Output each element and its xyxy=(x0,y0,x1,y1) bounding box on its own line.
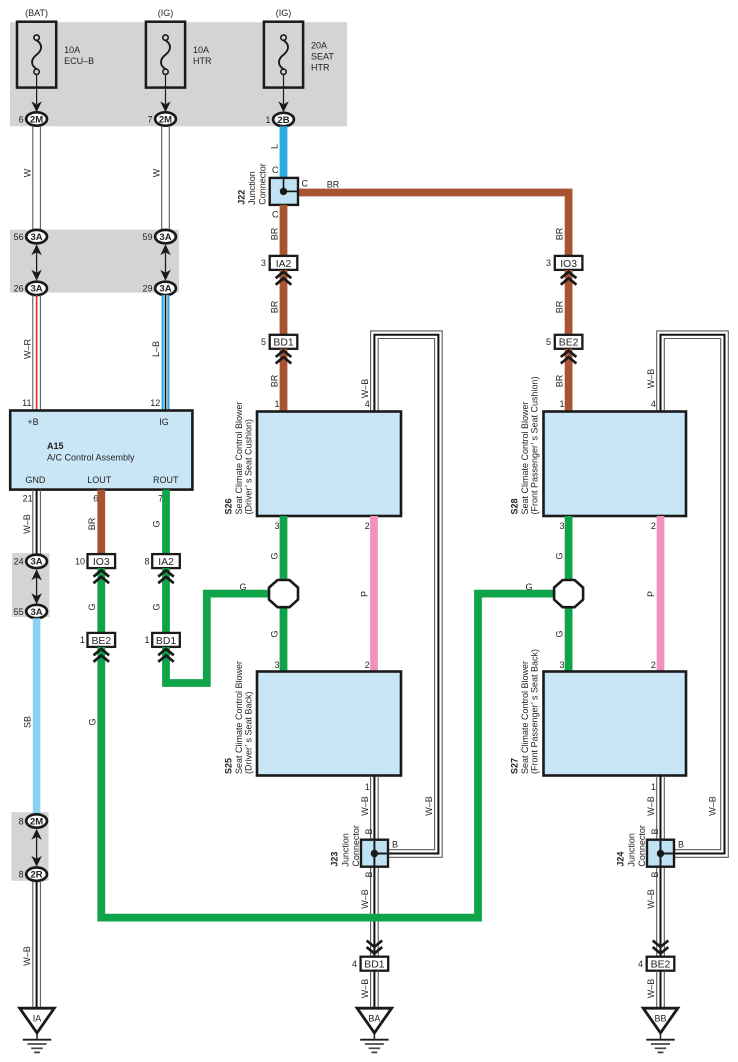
wire W-B 2R to ground IA xyxy=(22,881,40,1008)
svg-text:(BAT): (BAT) xyxy=(25,8,48,18)
svg-text:(Front Passenger’ s Seat Cushi: (Front Passenger’ s Seat Cushion) xyxy=(530,376,540,514)
label B below J24 xyxy=(650,871,660,877)
svg-text:BR: BR xyxy=(87,517,97,530)
wire BR BE2 to S28 pin 1 xyxy=(555,349,577,412)
wire BR IA2 to BD1 xyxy=(270,270,292,335)
wire P S28 pin2 to S27 pin2 xyxy=(646,516,661,672)
connector BE2 pin 1 xyxy=(80,633,115,647)
svg-text:3: 3 xyxy=(274,521,279,531)
svg-text:2: 2 xyxy=(651,521,656,531)
svg-text:C: C xyxy=(272,210,279,220)
blower S27 Seat Climate Control Blower (Front Passenger's Seat Back) xyxy=(510,649,687,776)
connector BD1 pin 1 xyxy=(144,633,179,647)
svg-text:IG: IG xyxy=(159,417,169,427)
wire BR BD1 to S26 pin 1 xyxy=(270,349,292,412)
svg-text:12: 12 xyxy=(150,398,160,408)
chevrons into BE2-4 xyxy=(653,941,669,954)
svg-text:26: 26 xyxy=(14,284,24,294)
connector 2B pin 1 xyxy=(265,113,293,126)
svg-text:56: 56 xyxy=(14,232,24,242)
svg-text:Junction: Junction xyxy=(247,171,257,205)
svg-text:B: B xyxy=(678,840,684,850)
svg-text:21: 21 xyxy=(23,494,33,504)
pin 12 label xyxy=(150,398,160,408)
splice node left octagon xyxy=(269,580,298,607)
blower S28 Seat Climate Control Blower (Front Passenger's Seat Cushion) xyxy=(510,376,687,516)
pin 1 label S27 xyxy=(651,782,656,792)
svg-text:BA: BA xyxy=(368,1013,380,1023)
svg-text:20A: 20A xyxy=(311,40,327,50)
gray band connectors 2M/2R xyxy=(11,812,48,881)
gray band connectors 3A lower left xyxy=(12,553,50,617)
connector 3A pin 56 xyxy=(14,230,47,243)
svg-text:J22: J22 xyxy=(237,190,247,205)
svg-text:Seat Climate Control Blower: Seat Climate Control Blower xyxy=(520,661,530,774)
wire SB 55 to 2M xyxy=(22,618,36,814)
svg-text:W–B: W–B xyxy=(646,889,656,909)
svg-text:BR: BR xyxy=(327,180,340,190)
label B right of J24 xyxy=(678,840,684,850)
wire W-B A15 GND to 3A-24 xyxy=(22,490,40,555)
svg-text:BE2: BE2 xyxy=(559,338,579,349)
wire L-B 3A to A15 IG xyxy=(151,295,166,410)
svg-text:Seat Climate Control Blower: Seat Climate Control Blower xyxy=(520,401,530,514)
junction connector J22 xyxy=(237,163,298,205)
svg-text:G: G xyxy=(525,582,532,592)
svg-text:W–B: W–B xyxy=(646,979,656,999)
svg-text:3: 3 xyxy=(546,258,551,268)
svg-text:BR: BR xyxy=(270,300,280,313)
svg-text:5: 5 xyxy=(546,337,551,347)
svg-text:BD1: BD1 xyxy=(156,636,176,647)
connector 3A pin 29 xyxy=(142,282,175,295)
pin 1 label S28 xyxy=(559,399,564,409)
svg-text:G: G xyxy=(87,718,97,725)
svg-text:BR: BR xyxy=(270,374,280,387)
svg-text:8: 8 xyxy=(19,816,24,826)
pin 3 label S27 xyxy=(559,660,564,670)
connector BE2 pin 4 xyxy=(638,957,674,971)
svg-text:S26: S26 xyxy=(224,498,234,514)
svg-text:2M: 2M xyxy=(159,114,172,125)
wire G IA2 to BD1 xyxy=(152,568,174,633)
connector BE2 pin 5 xyxy=(546,335,582,349)
svg-text:4: 4 xyxy=(638,959,643,969)
svg-text:S25: S25 xyxy=(224,758,234,774)
svg-text:J24: J24 xyxy=(616,852,626,867)
wire P S26 pin2 to S25 pin2 xyxy=(360,516,375,672)
label B above J24 xyxy=(650,828,660,834)
svg-text:P: P xyxy=(646,591,656,597)
gray band fuse row xyxy=(10,22,347,126)
svg-text:3: 3 xyxy=(559,521,564,531)
svg-text:1: 1 xyxy=(144,635,149,645)
svg-text:(IG): (IG) xyxy=(158,8,174,18)
svg-text:W–B: W–B xyxy=(646,796,656,816)
svg-text:ECU–B: ECU–B xyxy=(64,56,94,66)
svg-text:IO3: IO3 xyxy=(560,259,577,270)
svg-text:W–B: W–B xyxy=(360,796,370,816)
connector BD1 pin 4 xyxy=(352,957,388,971)
chevrons into BD1-4 xyxy=(367,941,383,954)
svg-text:3A: 3A xyxy=(159,232,171,243)
splice node right octagon xyxy=(554,580,583,607)
svg-text:SEAT: SEAT xyxy=(311,51,334,61)
label C below J22 xyxy=(272,210,279,220)
wire W-B S27 pin1 to BE2-4 xyxy=(646,776,664,957)
svg-text:BR: BR xyxy=(270,227,280,240)
svg-text:5: 5 xyxy=(261,337,266,347)
wire BR A15 LOUT to IO3 xyxy=(87,490,101,555)
wire W-B BE2-4 to ground BB xyxy=(646,971,664,1009)
pin 7 label xyxy=(158,494,163,504)
svg-text:IA2: IA2 xyxy=(276,259,292,270)
svg-text:(Driver’ s Seat Back): (Driver’ s Seat Back) xyxy=(244,691,254,774)
svg-text:29: 29 xyxy=(142,284,152,294)
svg-text:(Driver’ s Seat Cushion): (Driver’ s Seat Cushion) xyxy=(244,419,254,515)
wire W-B S28 pin4 loop to J24 xyxy=(646,331,728,857)
connector IO3 pin 10 xyxy=(75,554,115,568)
svg-text:W: W xyxy=(23,168,33,177)
svg-text:W–B: W–B xyxy=(22,946,32,966)
svg-text:59: 59 xyxy=(142,232,152,242)
svg-text:IO3: IO3 xyxy=(93,557,110,568)
gray band connectors 3A upper xyxy=(10,230,179,293)
svg-text:2M: 2M xyxy=(30,816,43,827)
svg-text:8: 8 xyxy=(19,870,24,880)
svg-text:IA: IA xyxy=(33,1013,42,1023)
svg-text:55: 55 xyxy=(14,607,24,617)
svg-text:BE2: BE2 xyxy=(651,960,671,971)
wire G splice to S25 pin3 xyxy=(270,607,284,672)
label B above J23 xyxy=(364,828,374,834)
svg-text:1: 1 xyxy=(365,782,370,792)
svg-text:G: G xyxy=(152,603,162,610)
svg-text:LOUT: LOUT xyxy=(87,475,112,485)
fuse SEAT HTR 20A xyxy=(264,8,334,112)
wire G splice to S27 pin3 xyxy=(555,607,569,672)
svg-text:L–B: L–B xyxy=(151,341,161,357)
link arrows 56-26 xyxy=(31,244,41,280)
svg-text:2M: 2M xyxy=(30,114,43,125)
svg-text:3A: 3A xyxy=(31,607,43,618)
svg-text:BE2: BE2 xyxy=(91,636,111,647)
svg-text:B: B xyxy=(392,840,398,850)
svg-text:+B: +B xyxy=(27,417,38,427)
svg-text:Connector: Connector xyxy=(351,825,361,867)
svg-text:G: G xyxy=(270,630,280,637)
pin 2 label S28 xyxy=(651,521,656,531)
connector IO3 pin 3 xyxy=(546,256,582,270)
fuse ECU-B 10A xyxy=(17,8,94,112)
svg-text:W–B: W–B xyxy=(360,889,370,909)
junction connector J24 xyxy=(616,825,675,867)
svg-text:P: P xyxy=(360,591,370,597)
wire W-B S25 pin1 to BD1-4 xyxy=(360,776,378,957)
svg-text:10A: 10A xyxy=(64,45,80,55)
svg-text:G: G xyxy=(270,552,280,559)
svg-text:Seat Climate Control Blower: Seat Climate Control Blower xyxy=(234,661,244,774)
connector IA2 pin 3 xyxy=(261,256,297,270)
svg-text:3A: 3A xyxy=(31,284,43,295)
svg-text:G: G xyxy=(555,630,565,637)
svg-text:C: C xyxy=(272,165,279,175)
svg-text:G: G xyxy=(239,582,246,592)
pin 3 label S28 xyxy=(559,521,564,531)
svg-text:BD1: BD1 xyxy=(364,960,384,971)
svg-text:W–B: W–B xyxy=(360,379,370,399)
svg-text:C: C xyxy=(302,179,309,189)
svg-text:2: 2 xyxy=(365,521,370,531)
pin 6 label xyxy=(93,494,98,504)
label B below J23 xyxy=(364,871,374,877)
pin 4 label S26 xyxy=(365,399,370,409)
svg-text:3: 3 xyxy=(261,258,266,268)
ground IA xyxy=(20,1008,55,1052)
label C above J22 xyxy=(272,165,279,175)
wire G IO3 to BE2 xyxy=(87,568,109,633)
svg-text:3A: 3A xyxy=(31,557,43,568)
svg-text:HTR: HTR xyxy=(311,62,330,72)
svg-text:W–B: W–B xyxy=(424,796,434,816)
connector 2M pin 7 xyxy=(147,112,175,125)
svg-text:ROUT: ROUT xyxy=(153,475,179,485)
junction connector J23 xyxy=(330,825,389,867)
connector 2M pin 8 xyxy=(19,814,47,827)
svg-text:BB: BB xyxy=(654,1013,666,1023)
svg-text:4: 4 xyxy=(651,399,656,409)
svg-text:B: B xyxy=(650,871,660,877)
connector 3A pin 26 xyxy=(14,282,47,295)
svg-text:3A: 3A xyxy=(159,284,171,295)
connector 3A pin 55 xyxy=(14,605,47,618)
connector 2M pin 6 xyxy=(19,112,47,125)
svg-text:3A: 3A xyxy=(31,232,43,243)
pin 3 label S26 xyxy=(274,521,279,531)
connector 2R pin 8 xyxy=(19,868,47,881)
pin 2 label S26 xyxy=(365,521,370,531)
wire W-B S26 pin4 loop to J23 xyxy=(360,331,442,857)
svg-text:S27: S27 xyxy=(510,758,520,774)
pin 1 label S25 xyxy=(365,782,370,792)
svg-text:W–B: W–B xyxy=(646,369,656,389)
svg-text:1: 1 xyxy=(651,782,656,792)
wire L 2B to J22 xyxy=(270,126,284,178)
wire G BE2 to right splice branch xyxy=(87,582,555,918)
svg-text:Junction: Junction xyxy=(340,833,350,867)
wire G S28 pin3 to splice xyxy=(555,516,569,581)
connector 3A pin 59 xyxy=(142,230,175,243)
svg-text:BR: BR xyxy=(555,374,565,387)
svg-text:10: 10 xyxy=(75,556,85,566)
link arrows 59-29 xyxy=(160,244,170,280)
link arrows 24-55 xyxy=(31,569,41,604)
wire G A15 ROUT to IA2 xyxy=(152,490,166,555)
wire W fuse ECU-B to 3A xyxy=(23,126,41,230)
svg-text:W–B: W–B xyxy=(708,796,718,816)
ground BB xyxy=(643,1008,678,1052)
svg-text:11: 11 xyxy=(22,398,31,408)
svg-text:2R: 2R xyxy=(31,870,43,881)
svg-text:4: 4 xyxy=(365,399,370,409)
wire W-R 3A to A15 +B xyxy=(22,295,40,410)
svg-text:8: 8 xyxy=(144,556,149,566)
blower S26 Seat Climate Control Blower (Driver's Seat Cushion) xyxy=(224,401,402,516)
pin 1 label S26 xyxy=(274,399,279,409)
svg-text:IA2: IA2 xyxy=(158,557,174,568)
pin 2 label S25 xyxy=(365,660,370,670)
svg-text:BD1: BD1 xyxy=(273,338,293,349)
svg-text:4: 4 xyxy=(352,959,357,969)
svg-text:Connector: Connector xyxy=(258,163,268,205)
svg-text:10A: 10A xyxy=(193,45,209,55)
connector IA2 pin 8 xyxy=(144,554,179,568)
svg-text:1: 1 xyxy=(80,635,85,645)
ground BA xyxy=(357,1008,392,1052)
svg-text:2: 2 xyxy=(651,660,656,670)
svg-text:Connector: Connector xyxy=(637,825,647,867)
svg-text:B: B xyxy=(364,871,374,877)
svg-text:W–B: W–B xyxy=(22,514,32,534)
pin 2 label S27 xyxy=(651,660,656,670)
wire G BD1 to left splice branch xyxy=(158,582,270,683)
blower S25 Seat Climate Control Blower (Driver's Seat Back) xyxy=(224,661,402,776)
svg-text:7: 7 xyxy=(147,114,152,124)
svg-text:G: G xyxy=(87,603,97,610)
fuse HTR 10A xyxy=(146,8,212,112)
svg-text:W–B: W–B xyxy=(360,979,370,999)
svg-text:BR: BR xyxy=(555,300,565,313)
svg-text:6: 6 xyxy=(19,114,24,124)
svg-text:GND: GND xyxy=(25,475,46,485)
svg-text:1: 1 xyxy=(274,399,279,409)
svg-text:S28: S28 xyxy=(510,498,520,514)
pin 21 label xyxy=(23,494,33,504)
svg-text:L: L xyxy=(270,144,280,149)
pin 11 label xyxy=(22,398,31,408)
svg-text:2B: 2B xyxy=(277,115,289,126)
svg-text:B: B xyxy=(650,828,660,834)
svg-text:W–R: W–R xyxy=(22,339,32,360)
svg-text:3: 3 xyxy=(274,660,279,670)
wire BR IO3 to BE2 xyxy=(555,270,577,335)
wire G S26 pin3 to splice xyxy=(270,516,284,581)
svg-text:G: G xyxy=(152,520,162,527)
svg-text:1: 1 xyxy=(559,399,564,409)
svg-text:A/C Control Assembly: A/C Control Assembly xyxy=(47,452,135,462)
wire BR J22 to IO3 branch xyxy=(298,179,569,257)
svg-text:A15: A15 xyxy=(47,441,64,451)
link arrows 2M-2R xyxy=(31,829,41,867)
svg-text:B: B xyxy=(364,828,374,834)
wire W fuse HTR to 3A xyxy=(152,126,170,230)
svg-text:SB: SB xyxy=(22,716,32,728)
svg-text:Seat Climate Control Blower: Seat Climate Control Blower xyxy=(234,401,244,514)
svg-text:3: 3 xyxy=(559,660,564,670)
svg-text:HTR: HTR xyxy=(193,56,212,66)
wire BR to IO3 right xyxy=(555,227,565,240)
svg-text:Junction: Junction xyxy=(626,833,636,867)
svg-text:(IG): (IG) xyxy=(276,8,292,18)
ECU A15 A/C Control Assembly xyxy=(10,411,192,490)
svg-text:BR: BR xyxy=(555,227,565,240)
svg-text:24: 24 xyxy=(14,557,24,567)
connector BD1 pin 5 xyxy=(261,335,297,349)
svg-text:W: W xyxy=(152,168,162,177)
label B right of J23 xyxy=(392,840,398,850)
svg-text:J23: J23 xyxy=(330,852,340,867)
svg-text:2: 2 xyxy=(365,660,370,670)
svg-text:(Front Passenger’ s Seat Back): (Front Passenger’ s Seat Back) xyxy=(530,649,540,774)
pin 3 label S25 xyxy=(274,660,279,670)
wire W-B BD1-4 to ground BA xyxy=(360,971,378,1009)
wire BR J22 to IA2 xyxy=(270,205,284,256)
svg-text:1: 1 xyxy=(265,115,270,125)
svg-text:G: G xyxy=(555,552,565,559)
connector 3A pin 24 xyxy=(14,555,47,568)
pin 4 label S28 xyxy=(651,399,656,409)
